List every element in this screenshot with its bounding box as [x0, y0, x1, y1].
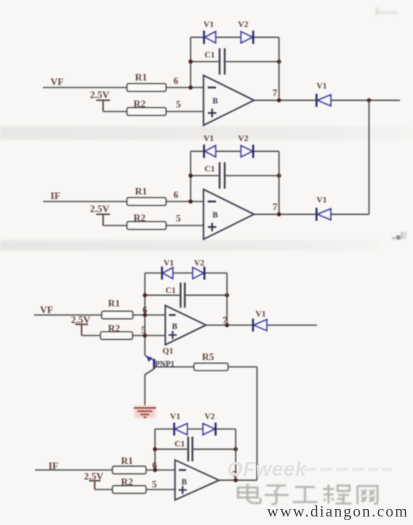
diode V2 (feedback) [238, 19, 253, 44]
svg-text:C1: C1 [205, 164, 215, 174]
resistor R2 [127, 108, 166, 116]
svg-text:R2: R2 [134, 213, 146, 224]
wire feedback right vertical [278, 151, 280, 214]
svg-text:6: 6 [174, 191, 179, 201]
wire feedback left vertical [190, 37, 192, 87]
transistor emitter arrow [146, 356, 152, 362]
wire 2.5V to op-amp pin 5 [82, 335, 166, 337]
watermark small tagline [304, 468, 392, 472]
diode V1 (feedback) [204, 19, 216, 44]
svg-text:B: B [172, 322, 178, 331]
wire 2.5V to op-amp pin 5 [103, 225, 203, 227]
node junction pin5 [143, 333, 147, 337]
node junction pin6 [189, 85, 193, 89]
svg-text:R5: R5 [202, 352, 214, 363]
wire VF input to op-amp pin 6 [43, 87, 204, 89]
svg-text:V2: V2 [194, 258, 204, 268]
svg-text:R2: R2 [134, 99, 146, 110]
svg-text:V1: V1 [317, 195, 327, 205]
op-amp B (U2) [204, 189, 255, 239]
svg-text:2.5V: 2.5V [90, 204, 109, 215]
diode V1 (output) [317, 81, 331, 107]
wire feedback left vertical (continues down to transistor) [144, 273, 146, 355]
diode V2 (feedback) [203, 411, 216, 436]
svg-text:R1: R1 [121, 456, 133, 467]
wire op-amp output [219, 479, 257, 481]
wire IF input to op-amp pin 6 [35, 469, 175, 471]
node junction C1 rail right [234, 447, 238, 451]
node junction C1 rail left [153, 447, 157, 451]
resistor R1 [127, 198, 166, 206]
svg-text:C1: C1 [166, 285, 176, 295]
small scribble mark right middle [392, 231, 407, 240]
op-amp B (U3) [165, 305, 206, 344]
resistor R1 [127, 84, 166, 92]
svg-text:5: 5 [152, 480, 157, 490]
wire 2.5V to op-amp pin 5 [95, 489, 175, 491]
transistor Q1 (PNP1) [145, 345, 194, 406]
svg-text:OFweek: OFweek [227, 459, 307, 481]
wire VF input to op-amp pin 6 [34, 314, 165, 316]
capacitor C1 [175, 437, 193, 462]
wire R5 to bus corner [228, 366, 257, 368]
wire emitter down to ground [144, 375, 146, 406]
scan band under circuit 2 [0, 240, 380, 251]
svg-text:R1: R1 [108, 299, 120, 310]
wire feedback top rail [191, 150, 279, 152]
diode V2 (feedback) [238, 133, 253, 158]
capacitor C1 [205, 48, 225, 74]
ground [135, 406, 156, 418]
wire C1 rail [155, 448, 236, 450]
resistor R1 [113, 466, 147, 473]
svg-text:IF: IF [51, 191, 61, 202]
node junction output [277, 98, 281, 102]
wire feedback top rail [145, 272, 227, 274]
node junction C1 rail left [189, 60, 193, 64]
svg-text:B: B [182, 477, 188, 486]
capacitor C1 [205, 162, 225, 188]
wire C1 rail [191, 175, 279, 177]
svg-text:5: 5 [176, 215, 181, 225]
svg-text:2.5V: 2.5V [90, 90, 109, 101]
wire feedback top rail [191, 36, 279, 38]
wire bus vertical down to circuit 4 output [256, 367, 258, 480]
svg-text:5: 5 [176, 101, 181, 111]
char 电 [238, 484, 261, 504]
svg-text:B: B [213, 97, 219, 106]
node junction C1 rail left [189, 174, 193, 178]
char 程 [323, 485, 352, 504]
svg-text:V1: V1 [204, 19, 214, 29]
op-amp B (U4) [175, 460, 219, 500]
diode V1 (feedback) [162, 258, 174, 280]
node junction pin6 [143, 313, 147, 317]
wire feedback left vertical [190, 151, 192, 201]
diode V1 (output) [317, 195, 331, 221]
svg-text:V2: V2 [238, 19, 248, 29]
wire op-amp output [206, 324, 317, 326]
diode V1 (feedback) [204, 133, 216, 158]
wire op-amp output [254, 99, 400, 101]
svg-text:V1: V1 [170, 411, 180, 421]
svg-text:B: B [213, 211, 219, 220]
char 网 [358, 486, 378, 504]
svg-text:R1: R1 [135, 187, 147, 198]
transistor emitter lower lead [145, 369, 154, 375]
svg-text:6: 6 [174, 77, 179, 87]
wire IF input to op-amp pin 6 [43, 201, 204, 203]
wire collector from pin5 node down [145, 355, 154, 360]
node junction C1 rail right [277, 60, 281, 64]
char 工 [293, 487, 318, 502]
wire op-amp output [254, 213, 369, 215]
svg-text:R2: R2 [108, 324, 120, 335]
wire C1 rail [191, 61, 279, 63]
svg-text:R2: R2 [121, 477, 133, 488]
node junction pin6 [189, 199, 193, 203]
svg-text:7: 7 [273, 203, 278, 213]
node junction output [225, 323, 229, 327]
diode V2 (feedback) [193, 258, 205, 280]
svg-text:C1: C1 [175, 439, 185, 449]
transistor base bar [153, 359, 155, 369]
diode V1 (feedback) [170, 411, 187, 436]
node junction output bus [367, 98, 371, 102]
svg-text:V1: V1 [317, 81, 327, 91]
wire feedback right vertical [226, 273, 228, 325]
node junction output [277, 212, 281, 216]
wire feedback left vertical [154, 429, 156, 470]
capacitor C1 [166, 283, 185, 308]
wire C1 rail [145, 294, 227, 296]
svg-text:Q1: Q1 [163, 345, 174, 355]
svg-text:V1: V1 [256, 309, 266, 319]
watermark 电子工程网 (drawn strokes) [238, 484, 378, 505]
svg-text:V1: V1 [164, 258, 174, 268]
svg-text:www.diangon.com: www.diangon.com [267, 504, 409, 521]
node junction C1 rail left [143, 293, 147, 297]
scan band under circuit 1 [0, 126, 413, 140]
wire feedback right vertical [278, 37, 280, 100]
node junction C1 rail right [225, 293, 229, 297]
resistor R5 [194, 363, 228, 370]
wire base lead to R5 [154, 366, 194, 368]
svg-text:C1: C1 [205, 50, 215, 60]
wire bus vertical to circuit 2 [368, 100, 370, 214]
char 子 [265, 486, 289, 505]
top-right corner mark [377, 8, 397, 16]
svg-text:V2: V2 [238, 133, 248, 143]
resistor R2 [101, 332, 133, 339]
op-amp B (U1) [204, 75, 255, 125]
svg-text:V1: V1 [204, 133, 214, 143]
node junction pin6 [153, 468, 157, 472]
wire feedback top rail [155, 428, 236, 430]
resistor R2 [127, 222, 166, 230]
node junction C1 rail right [277, 174, 281, 178]
svg-text:R1: R1 [135, 73, 147, 84]
resistor R1 [102, 311, 133, 318]
svg-text:VF: VF [51, 77, 64, 88]
wire feedback right vertical [235, 429, 237, 480]
svg-text:V2: V2 [205, 411, 215, 421]
node junction output [234, 478, 238, 482]
wire 2.5V to op-amp pin 5 [103, 111, 203, 113]
svg-text:7: 7 [273, 89, 278, 99]
diode V1 (output) [253, 309, 267, 332]
resistor R2 [113, 486, 147, 493]
